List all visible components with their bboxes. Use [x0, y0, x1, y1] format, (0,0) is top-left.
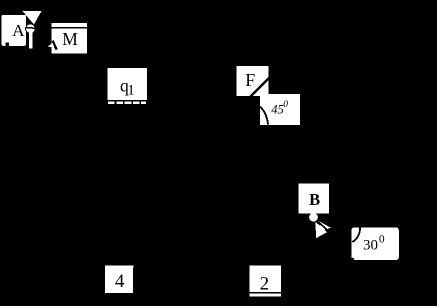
moment M arrow shaft — [53, 41, 57, 50]
pin support at A: triangle — [22, 11, 41, 25]
45 deg label box — [260, 94, 300, 125]
roller support at B: lower wedge — [316, 222, 327, 239]
distributed load q1 dashes — [108, 102, 146, 105]
dimension 4 label box — [105, 266, 133, 293]
30 deg angle arc — [352, 227, 360, 242]
svg-text:4: 4 — [115, 271, 125, 292]
svg-text:0: 0 — [379, 233, 385, 245]
dimension 4 box corner nub — [132, 266, 135, 268]
svg-text:30: 30 — [363, 238, 378, 254]
pin support at A: hinge circle — [26, 24, 36, 34]
dimension 2 label box — [250, 266, 281, 293]
moment M arrowhead — [48, 43, 54, 48]
svg-text:2: 2 — [260, 273, 270, 294]
force F line at 45 deg — [250, 78, 269, 97]
roller support at B: hinge circle — [309, 213, 318, 222]
force F label box — [236, 66, 268, 96]
moment M line across box — [51, 27, 87, 29]
svg-text:F: F — [245, 70, 255, 90]
svg-text:1: 1 — [127, 83, 135, 99]
svg-text:0: 0 — [283, 100, 288, 110]
45 deg angle arc — [260, 107, 268, 125]
distributed load q1 label box — [108, 68, 147, 100]
roller support at B: bridge to box — [312, 213, 315, 215]
svg-text:A: A — [12, 21, 25, 40]
svg-text:45: 45 — [271, 103, 284, 117]
pin support at A: post bar — [29, 32, 33, 49]
svg-text:M: M — [62, 29, 78, 49]
node A label box — [1, 15, 26, 46]
dimension line under 2 — [250, 293, 281, 296]
ground hatch notch at A — [6, 43, 9, 46]
30 deg label box — [352, 228, 399, 260]
moment M label box — [51, 23, 87, 54]
node B label box — [299, 183, 329, 213]
pin support at A: chord line — [26, 27, 36, 30]
roller support at B: dividing line — [317, 221, 328, 231]
roller support at B: upper wedge — [318, 221, 331, 231]
svg-text:B: B — [309, 190, 320, 209]
incline tick at 30 box corner — [352, 258, 354, 260]
